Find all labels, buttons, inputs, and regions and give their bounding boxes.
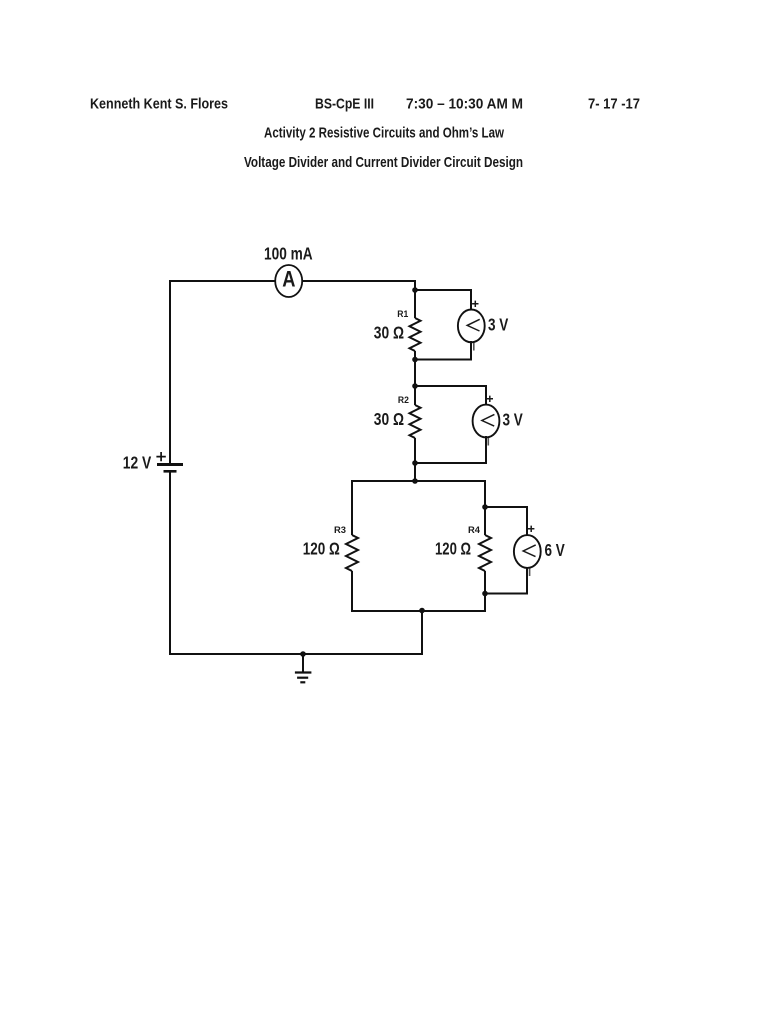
wire: top horizontal bbox=[170, 280, 415, 282]
wire: box left lower bbox=[351, 571, 353, 612]
wire: bottom horizontal bbox=[169, 653, 422, 655]
svg-text:120 Ω: 120 Ω bbox=[303, 539, 340, 559]
svg-text:Kenneth Kent S. Flores: Kenneth Kent S. Flores bbox=[90, 96, 228, 113]
svg-text:7:30 – 10:30 AM M: 7:30 – 10:30 AM M bbox=[406, 96, 523, 113]
resistor R1 bbox=[410, 318, 421, 351]
wire: R2 to box top bbox=[414, 438, 416, 482]
svg-text:R3: R3 bbox=[334, 525, 346, 536]
wire: R1 voltmeter loop top bbox=[415, 290, 471, 311]
voltmeter V3 (R2 3V) bbox=[473, 396, 500, 446]
svg-text:Activity 2 Resistive Circuits: Activity 2 Resistive Circuits and Ohm’s … bbox=[264, 124, 504, 141]
wire: box bottom bbox=[351, 610, 486, 612]
svg-text:30 Ω: 30 Ω bbox=[374, 322, 404, 342]
wire: R2 voltmeter loop bottom bbox=[415, 436, 486, 463]
voltmeter V2 (R1 3V) bbox=[458, 301, 485, 351]
svg-text:R1: R1 bbox=[397, 309, 409, 320]
node: box top junction bbox=[412, 478, 418, 484]
svg-text:3 V: 3 V bbox=[503, 409, 524, 429]
wire: R1 voltmeter loop bottom bbox=[415, 341, 471, 360]
wire: 6V voltmeter loop top bbox=[485, 507, 527, 536]
wire: R1 to R2 bbox=[414, 351, 416, 405]
svg-text:7- 17 -17: 7- 17 -17 bbox=[588, 96, 640, 113]
ammeter U1 bbox=[275, 265, 302, 297]
svg-text:R2: R2 bbox=[398, 395, 409, 406]
wire: left vertical lower bbox=[169, 472, 171, 655]
wire: box top bbox=[352, 480, 485, 482]
svg-text:A: A bbox=[282, 267, 295, 292]
svg-text:12 V: 12 V bbox=[123, 453, 152, 473]
node: ground junction bbox=[300, 651, 306, 657]
node: R4 bottom junction bbox=[482, 591, 488, 597]
svg-text:BS-CpE III: BS-CpE III bbox=[315, 96, 374, 113]
wire: box right upper bbox=[484, 480, 486, 535]
wire: left vertical upper bbox=[169, 280, 171, 463]
wire: box bottom to ground rail bbox=[421, 610, 423, 655]
node: R2 top junction bbox=[412, 383, 418, 389]
svg-text:120 Ω: 120 Ω bbox=[435, 539, 471, 559]
node: box bottom junction bbox=[419, 608, 425, 614]
wire: 6V voltmeter loop bottom bbox=[485, 567, 527, 594]
svg-text:30 Ω: 30 Ω bbox=[374, 409, 404, 429]
wire: R2 voltmeter loop top bbox=[415, 386, 486, 406]
voltmeter V4 (6V) bbox=[514, 526, 541, 576]
node: R1 bottom junction bbox=[412, 357, 418, 363]
node: R2 bottom junction bbox=[412, 460, 418, 466]
ground bbox=[295, 654, 312, 682]
svg-text:6 V: 6 V bbox=[545, 540, 566, 560]
resistor R4 bbox=[479, 535, 491, 571]
node: R1 top junction bbox=[412, 287, 418, 293]
svg-text:R4: R4 bbox=[468, 525, 481, 536]
node: R4 top junction bbox=[482, 504, 488, 510]
svg-text:Voltage Divider and Current Di: Voltage Divider and Current Divider Circ… bbox=[244, 154, 523, 171]
svg-text:100 mA: 100 mA bbox=[264, 244, 313, 264]
resistor R3 bbox=[346, 535, 358, 571]
wire: box left upper bbox=[351, 480, 353, 535]
battery V1 bbox=[156, 452, 183, 471]
wire: box right lower bbox=[484, 571, 486, 612]
resistor R2 bbox=[410, 405, 421, 438]
svg-text:3 V: 3 V bbox=[488, 314, 509, 334]
wire: branch top to R1 bbox=[414, 280, 416, 318]
